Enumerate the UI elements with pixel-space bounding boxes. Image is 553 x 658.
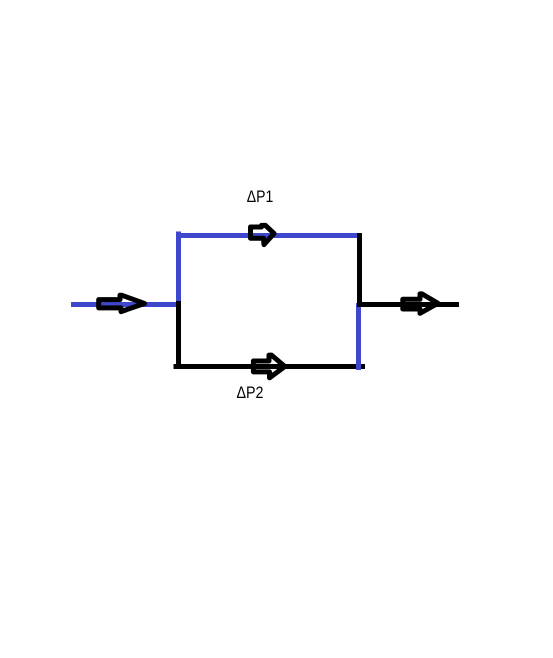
svg-text:ΔP2: ΔP2 — [237, 384, 264, 402]
arrow: bottom branch flow arrow — [253, 355, 285, 378]
wire: left branch vertical, upper segment (blue) — [176, 232, 181, 302]
arrow: inlet flow arrow — [99, 295, 145, 311]
svg-text:ΔP1: ΔP1 — [247, 188, 273, 206]
wire: top branch horizontal (blue) — [176, 233, 358, 238]
arrow: outlet flow arrow — [403, 294, 438, 313]
wire: left branch vertical, lower segment (black) — [176, 301, 181, 369]
arrow: top branch flow arrow — [251, 225, 275, 244]
wire: outlet line (black) — [357, 302, 459, 307]
wire: bottom branch horizontal (black) — [174, 364, 366, 369]
wire: inlet line (blue) — [71, 302, 177, 307]
wire: right branch vertical, lower segment (blue) — [356, 303, 361, 370]
wire: right branch vertical, upper segment (black) — [357, 233, 362, 303]
